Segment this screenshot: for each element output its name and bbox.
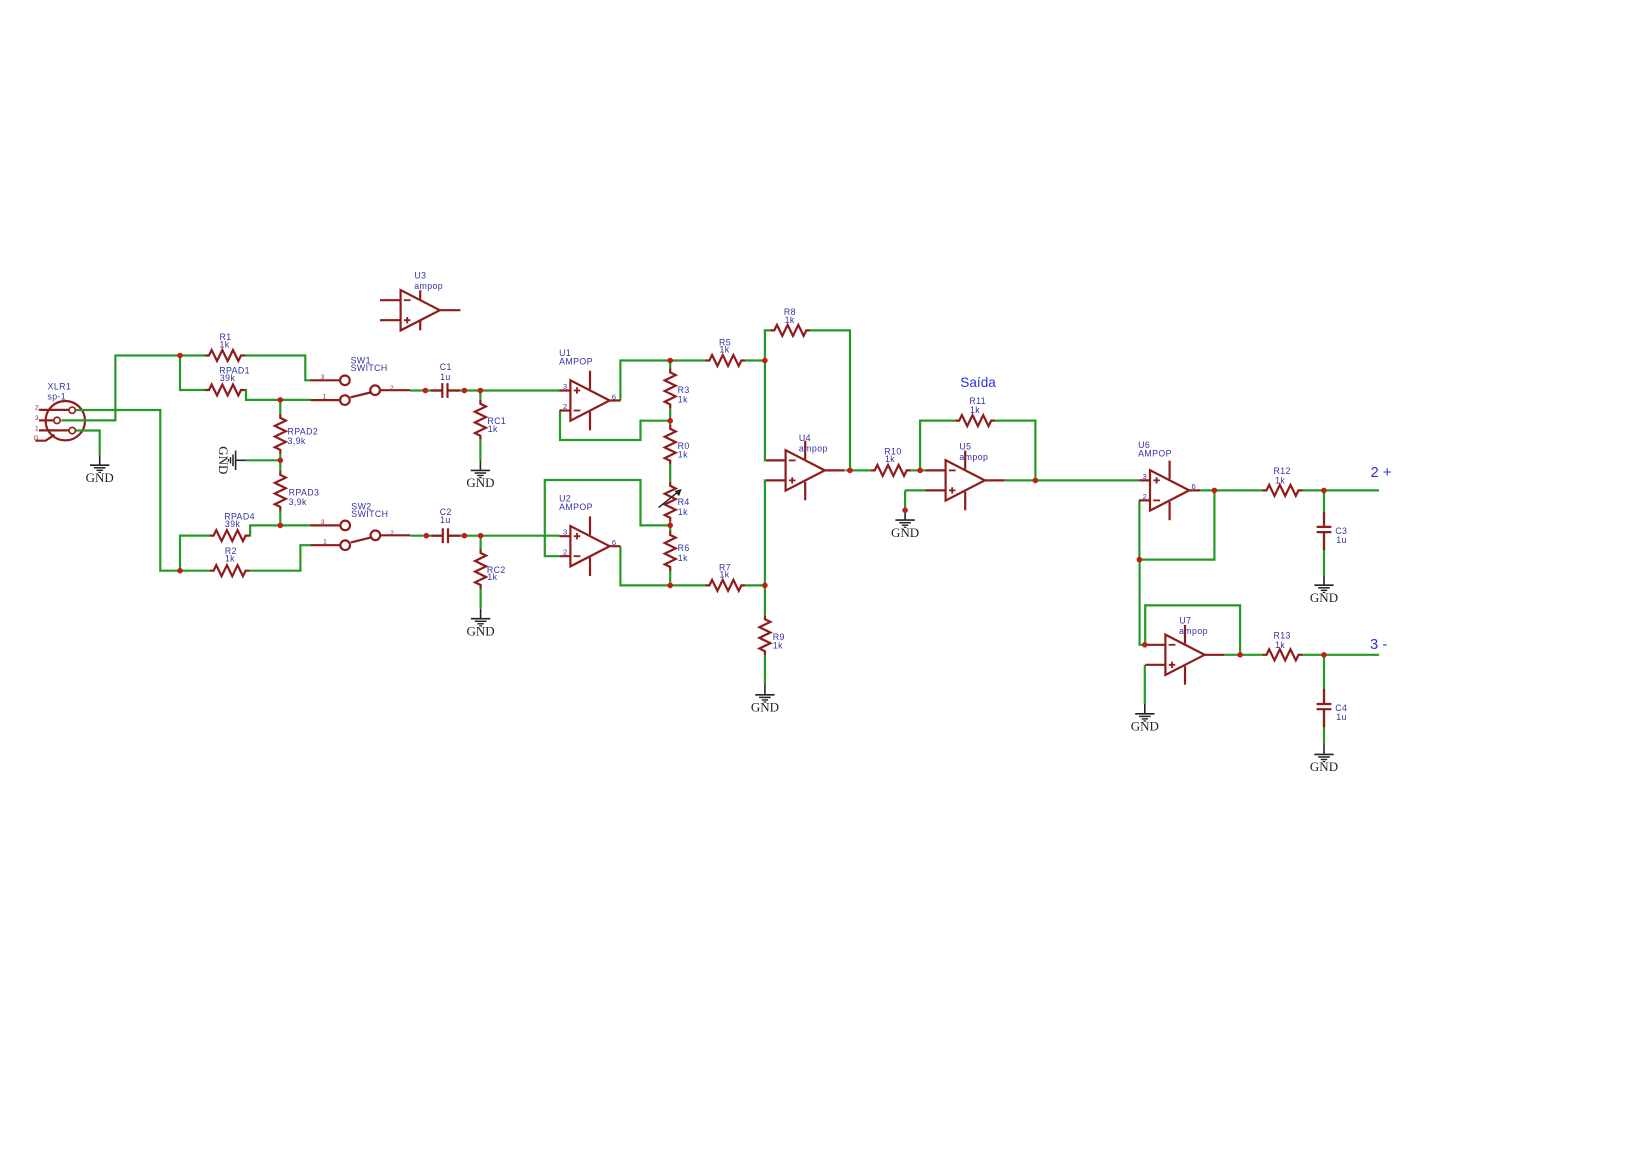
svg-text:1: 1 [35, 426, 39, 433]
svg-text:GND: GND [86, 470, 114, 485]
svg-text:1k: 1k [720, 570, 730, 580]
svg-text:U3: U3 [414, 270, 426, 280]
svg-text:AMPOP: AMPOP [1138, 449, 1172, 459]
svg-text:AMPOP: AMPOP [559, 502, 593, 512]
svg-text:1k: 1k [678, 553, 688, 563]
svg-text:1u: 1u [440, 372, 451, 382]
svg-text:R3: R3 [678, 385, 690, 395]
svg-text:2: 2 [563, 402, 568, 411]
svg-text:39k: 39k [225, 519, 241, 529]
svg-text:R13: R13 [1274, 630, 1291, 640]
svg-text:1k: 1k [773, 640, 783, 650]
svg-text:1u: 1u [1336, 712, 1347, 722]
svg-text:sp-1: sp-1 [47, 391, 66, 401]
svg-text:1k: 1k [720, 345, 730, 355]
svg-text:3: 3 [563, 528, 568, 537]
svg-text:3: 3 [1143, 472, 1148, 481]
svg-text:GND: GND [891, 525, 919, 540]
svg-text:1: 1 [323, 394, 327, 401]
svg-text:1k: 1k [220, 339, 230, 349]
svg-text:1k: 1k [885, 454, 895, 464]
svg-text:1: 1 [323, 539, 327, 546]
svg-text:1k: 1k [678, 507, 688, 517]
svg-text:GND: GND [751, 700, 779, 715]
svg-text:3,9k: 3,9k [289, 497, 307, 507]
svg-text:GND: GND [467, 623, 495, 638]
svg-text:2: 2 [390, 385, 394, 392]
svg-text:3: 3 [321, 519, 325, 526]
svg-text:1k: 1k [1275, 475, 1285, 485]
svg-text:RPAD2: RPAD2 [288, 427, 319, 437]
svg-text:6: 6 [1192, 482, 1197, 491]
svg-text:RPAD3: RPAD3 [289, 488, 320, 498]
svg-text:2 +: 2 + [1371, 465, 1392, 481]
svg-text:ampop: ampop [799, 444, 828, 454]
svg-text:1u: 1u [440, 515, 451, 525]
svg-text:2: 2 [35, 405, 39, 412]
svg-text:2: 2 [390, 530, 394, 537]
svg-text:1k: 1k [487, 572, 497, 582]
svg-text:3: 3 [321, 374, 325, 381]
svg-text:SWITCH: SWITCH [351, 363, 388, 373]
svg-text:GND: GND [216, 446, 231, 474]
svg-text:1k: 1k [225, 553, 235, 563]
svg-text:G: G [34, 435, 39, 442]
svg-text:3 -: 3 - [1370, 637, 1387, 653]
svg-text:39k: 39k [220, 373, 236, 383]
svg-text:XLR1: XLR1 [48, 382, 72, 392]
svg-text:ampop: ampop [414, 281, 443, 291]
svg-text:2: 2 [563, 548, 568, 557]
svg-text:R4: R4 [678, 497, 690, 507]
svg-text:1k: 1k [785, 315, 795, 325]
svg-text:C1: C1 [440, 362, 452, 372]
svg-text:GND: GND [466, 475, 494, 490]
svg-text:1k: 1k [970, 405, 980, 415]
svg-text:1k: 1k [678, 395, 688, 405]
svg-text:Saída: Saída [960, 375, 996, 390]
svg-text:AMPOP: AMPOP [559, 357, 593, 367]
svg-text:U4: U4 [799, 433, 811, 443]
svg-text:U5: U5 [959, 441, 971, 451]
svg-text:GND: GND [1310, 759, 1338, 774]
svg-text:GND: GND [1131, 719, 1159, 734]
svg-text:U7: U7 [1179, 616, 1191, 626]
svg-text:3: 3 [563, 382, 568, 391]
svg-text:1k: 1k [488, 424, 498, 434]
svg-text:6: 6 [612, 392, 617, 401]
svg-text:2: 2 [1143, 492, 1148, 501]
svg-text:1u: 1u [1336, 535, 1347, 545]
svg-text:R6: R6 [678, 543, 690, 553]
svg-text:1k: 1k [678, 450, 688, 460]
svg-text:1k: 1k [1275, 640, 1285, 650]
svg-text:3,9k: 3,9k [288, 436, 306, 446]
svg-text:6: 6 [612, 538, 617, 547]
svg-text:ampop: ampop [959, 452, 988, 462]
svg-text:SWITCH: SWITCH [351, 509, 388, 519]
svg-text:ampop: ampop [1179, 626, 1208, 636]
svg-text:GND: GND [1310, 590, 1338, 605]
svg-text:3: 3 [35, 415, 39, 422]
